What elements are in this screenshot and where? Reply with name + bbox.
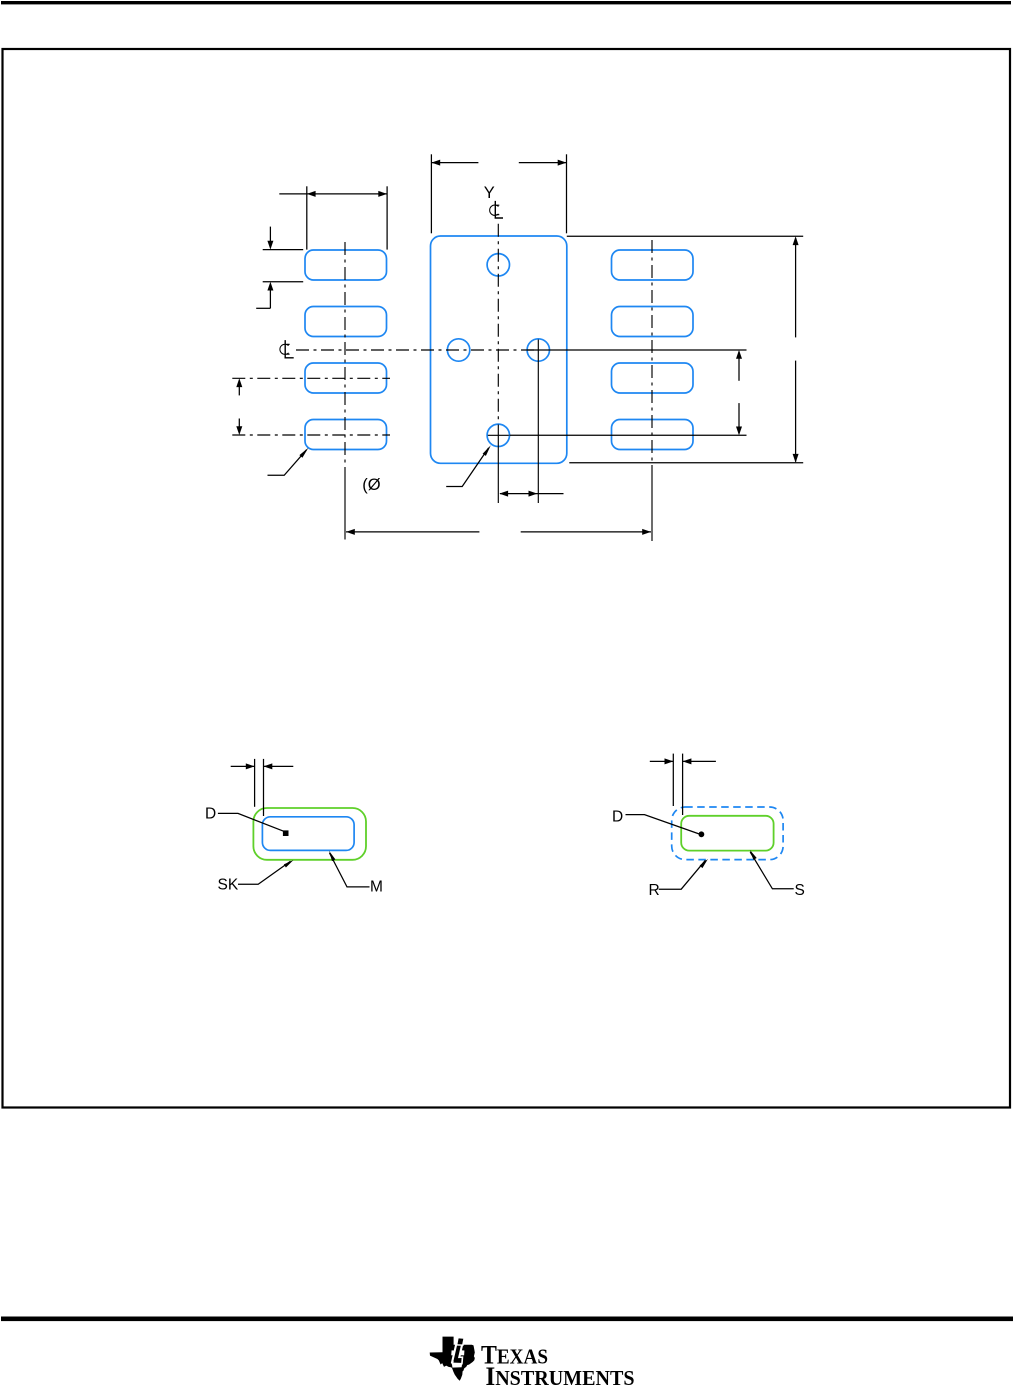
svg-text:SK: SK bbox=[218, 877, 239, 894]
svg-text:D: D bbox=[205, 806, 216, 823]
svg-text:(Ø: (Ø bbox=[362, 476, 380, 494]
svg-text:Y: Y bbox=[484, 184, 495, 202]
svg-text:S: S bbox=[795, 882, 805, 899]
svg-text:D: D bbox=[612, 809, 623, 826]
svg-text:R: R bbox=[649, 882, 660, 899]
svg-text:M: M bbox=[370, 879, 383, 896]
